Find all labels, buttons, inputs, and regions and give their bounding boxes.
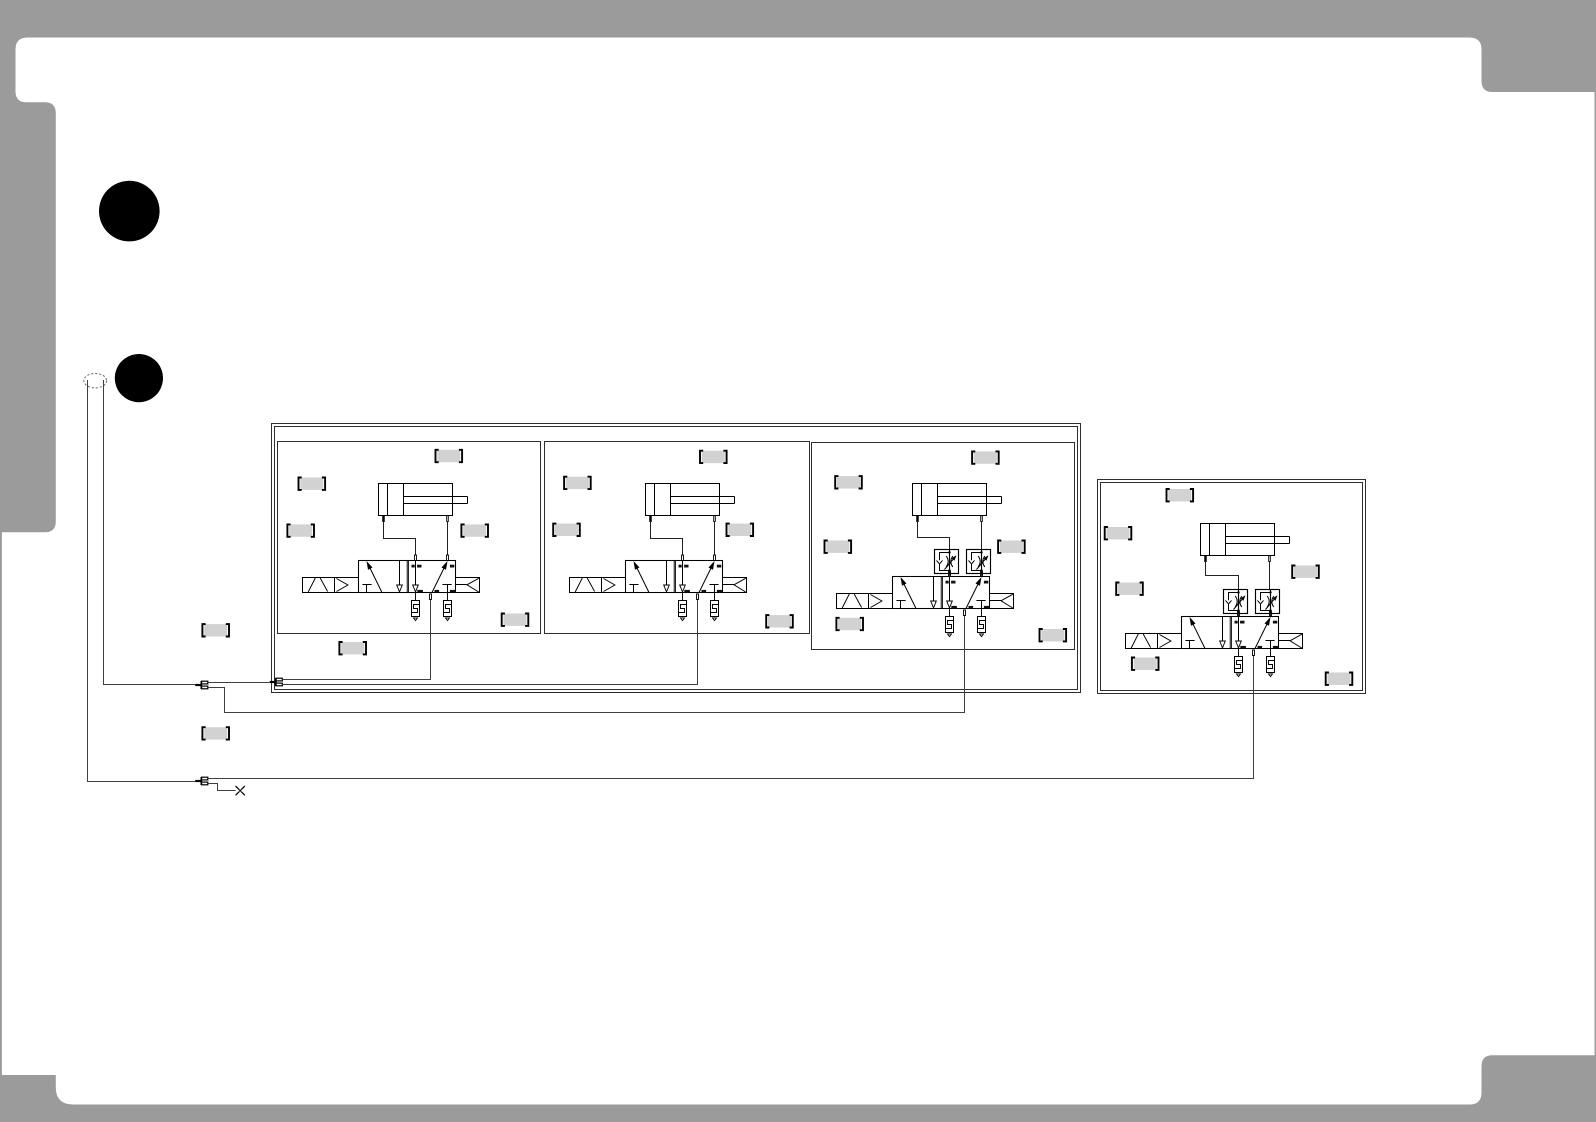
sub-box 1 — [278, 442, 541, 634]
distributor A — [195, 681, 208, 689]
label tag — [1167, 489, 1194, 501]
box 4 outer border — [1098, 480, 1366, 694]
bullet circle 1 — [99, 181, 160, 242]
wire: C lower to box2 valve supply — [282, 599, 697, 685]
label tag — [1132, 658, 1159, 670]
cylinder C1 — [379, 484, 468, 522]
label tag — [766, 615, 793, 627]
label tag — [1292, 566, 1319, 578]
frame edge connector C — [270, 678, 283, 686]
label tag — [727, 524, 754, 536]
wire: B upper long line to box4 valve supply — [208, 655, 1254, 779]
flow control F3a — [935, 550, 959, 574]
label tag — [339, 642, 366, 654]
wire: supply right line down to distributor A — [104, 380, 196, 685]
label tag — [553, 524, 580, 536]
label tag — [998, 541, 1025, 553]
valve V1 — [303, 555, 480, 600]
wire: A lower to box3 valve supply — [208, 615, 965, 713]
sub-box 3 — [812, 443, 1075, 650]
flow control F3b — [967, 550, 991, 574]
silencer V4 port5 — [1235, 649, 1243, 677]
wire: C3 right port to flow control F3b — [981, 522, 983, 550]
main frame (boxes 1-3) outer border — [272, 424, 1081, 693]
sub-box 2 — [545, 442, 810, 634]
wire: F4b to valve V4 — [1270, 614, 1272, 617]
compressed air supply — [84, 374, 107, 388]
main frame inner border — [275, 427, 1078, 690]
wire: F3b to valve V3 — [981, 574, 983, 577]
label tag — [1326, 673, 1353, 685]
wire: F3a to valve V3 — [949, 574, 951, 577]
label tag — [972, 451, 999, 463]
wire: C2 left port to valve V2 port4 — [651, 522, 683, 556]
wire: C upper to box1 valve supply — [282, 599, 430, 680]
silencer V2 port5 — [679, 593, 687, 621]
silencer V3 port3 — [978, 609, 986, 637]
valve V2 — [570, 555, 747, 600]
flow control F4b — [1256, 590, 1280, 614]
cylinder C2 — [646, 484, 735, 522]
bullet circle 2 — [115, 354, 163, 402]
flow control F4a — [1224, 590, 1248, 614]
label tag — [461, 524, 488, 536]
silencer V2 port3 — [711, 593, 719, 621]
valve V4 — [1126, 611, 1303, 656]
wire: A upper to frame connector C — [208, 682, 270, 684]
distributor B — [195, 777, 208, 785]
wire: C4 left port to flow control F4a — [1206, 562, 1239, 590]
label tag — [202, 727, 229, 739]
label tag — [1116, 583, 1143, 595]
label tag — [1105, 527, 1132, 539]
label tag — [1040, 629, 1067, 641]
label tag — [502, 614, 529, 626]
wire: C4 right port to flow control F4b — [1269, 562, 1271, 590]
label tag — [564, 477, 591, 489]
wire: F4a to valve V4 — [1238, 614, 1240, 617]
wire: supply left line down and right to distributor B — [88, 380, 196, 782]
silencer V1 port3 — [444, 593, 452, 621]
label tag — [825, 541, 852, 553]
label tag — [299, 478, 326, 490]
wire: C1 left port to valve V1 port4 — [384, 522, 416, 556]
label tag — [836, 618, 863, 630]
label tag — [835, 476, 862, 488]
silencer V4 port3 — [1267, 649, 1275, 677]
valve V3 — [837, 571, 1014, 616]
blind plug X — [236, 786, 245, 795]
label tag — [436, 450, 463, 462]
box 4 inner border — [1101, 483, 1363, 691]
wire: C2 right port to valve V2 port2 — [714, 522, 716, 556]
label tag — [287, 524, 314, 536]
label tag — [202, 624, 229, 636]
wire: C1 right port to valve V1 port2 — [447, 522, 449, 556]
wire: B lower to blind plug — [208, 784, 236, 791]
silencer V3 port5 — [946, 609, 954, 637]
cylinder C3 — [913, 484, 1002, 522]
label tag — [700, 451, 727, 463]
wire: C3 left port to flow control F3a — [918, 522, 950, 550]
silencer V1 port5 — [412, 593, 420, 621]
cylinder C4 — [1201, 524, 1290, 562]
